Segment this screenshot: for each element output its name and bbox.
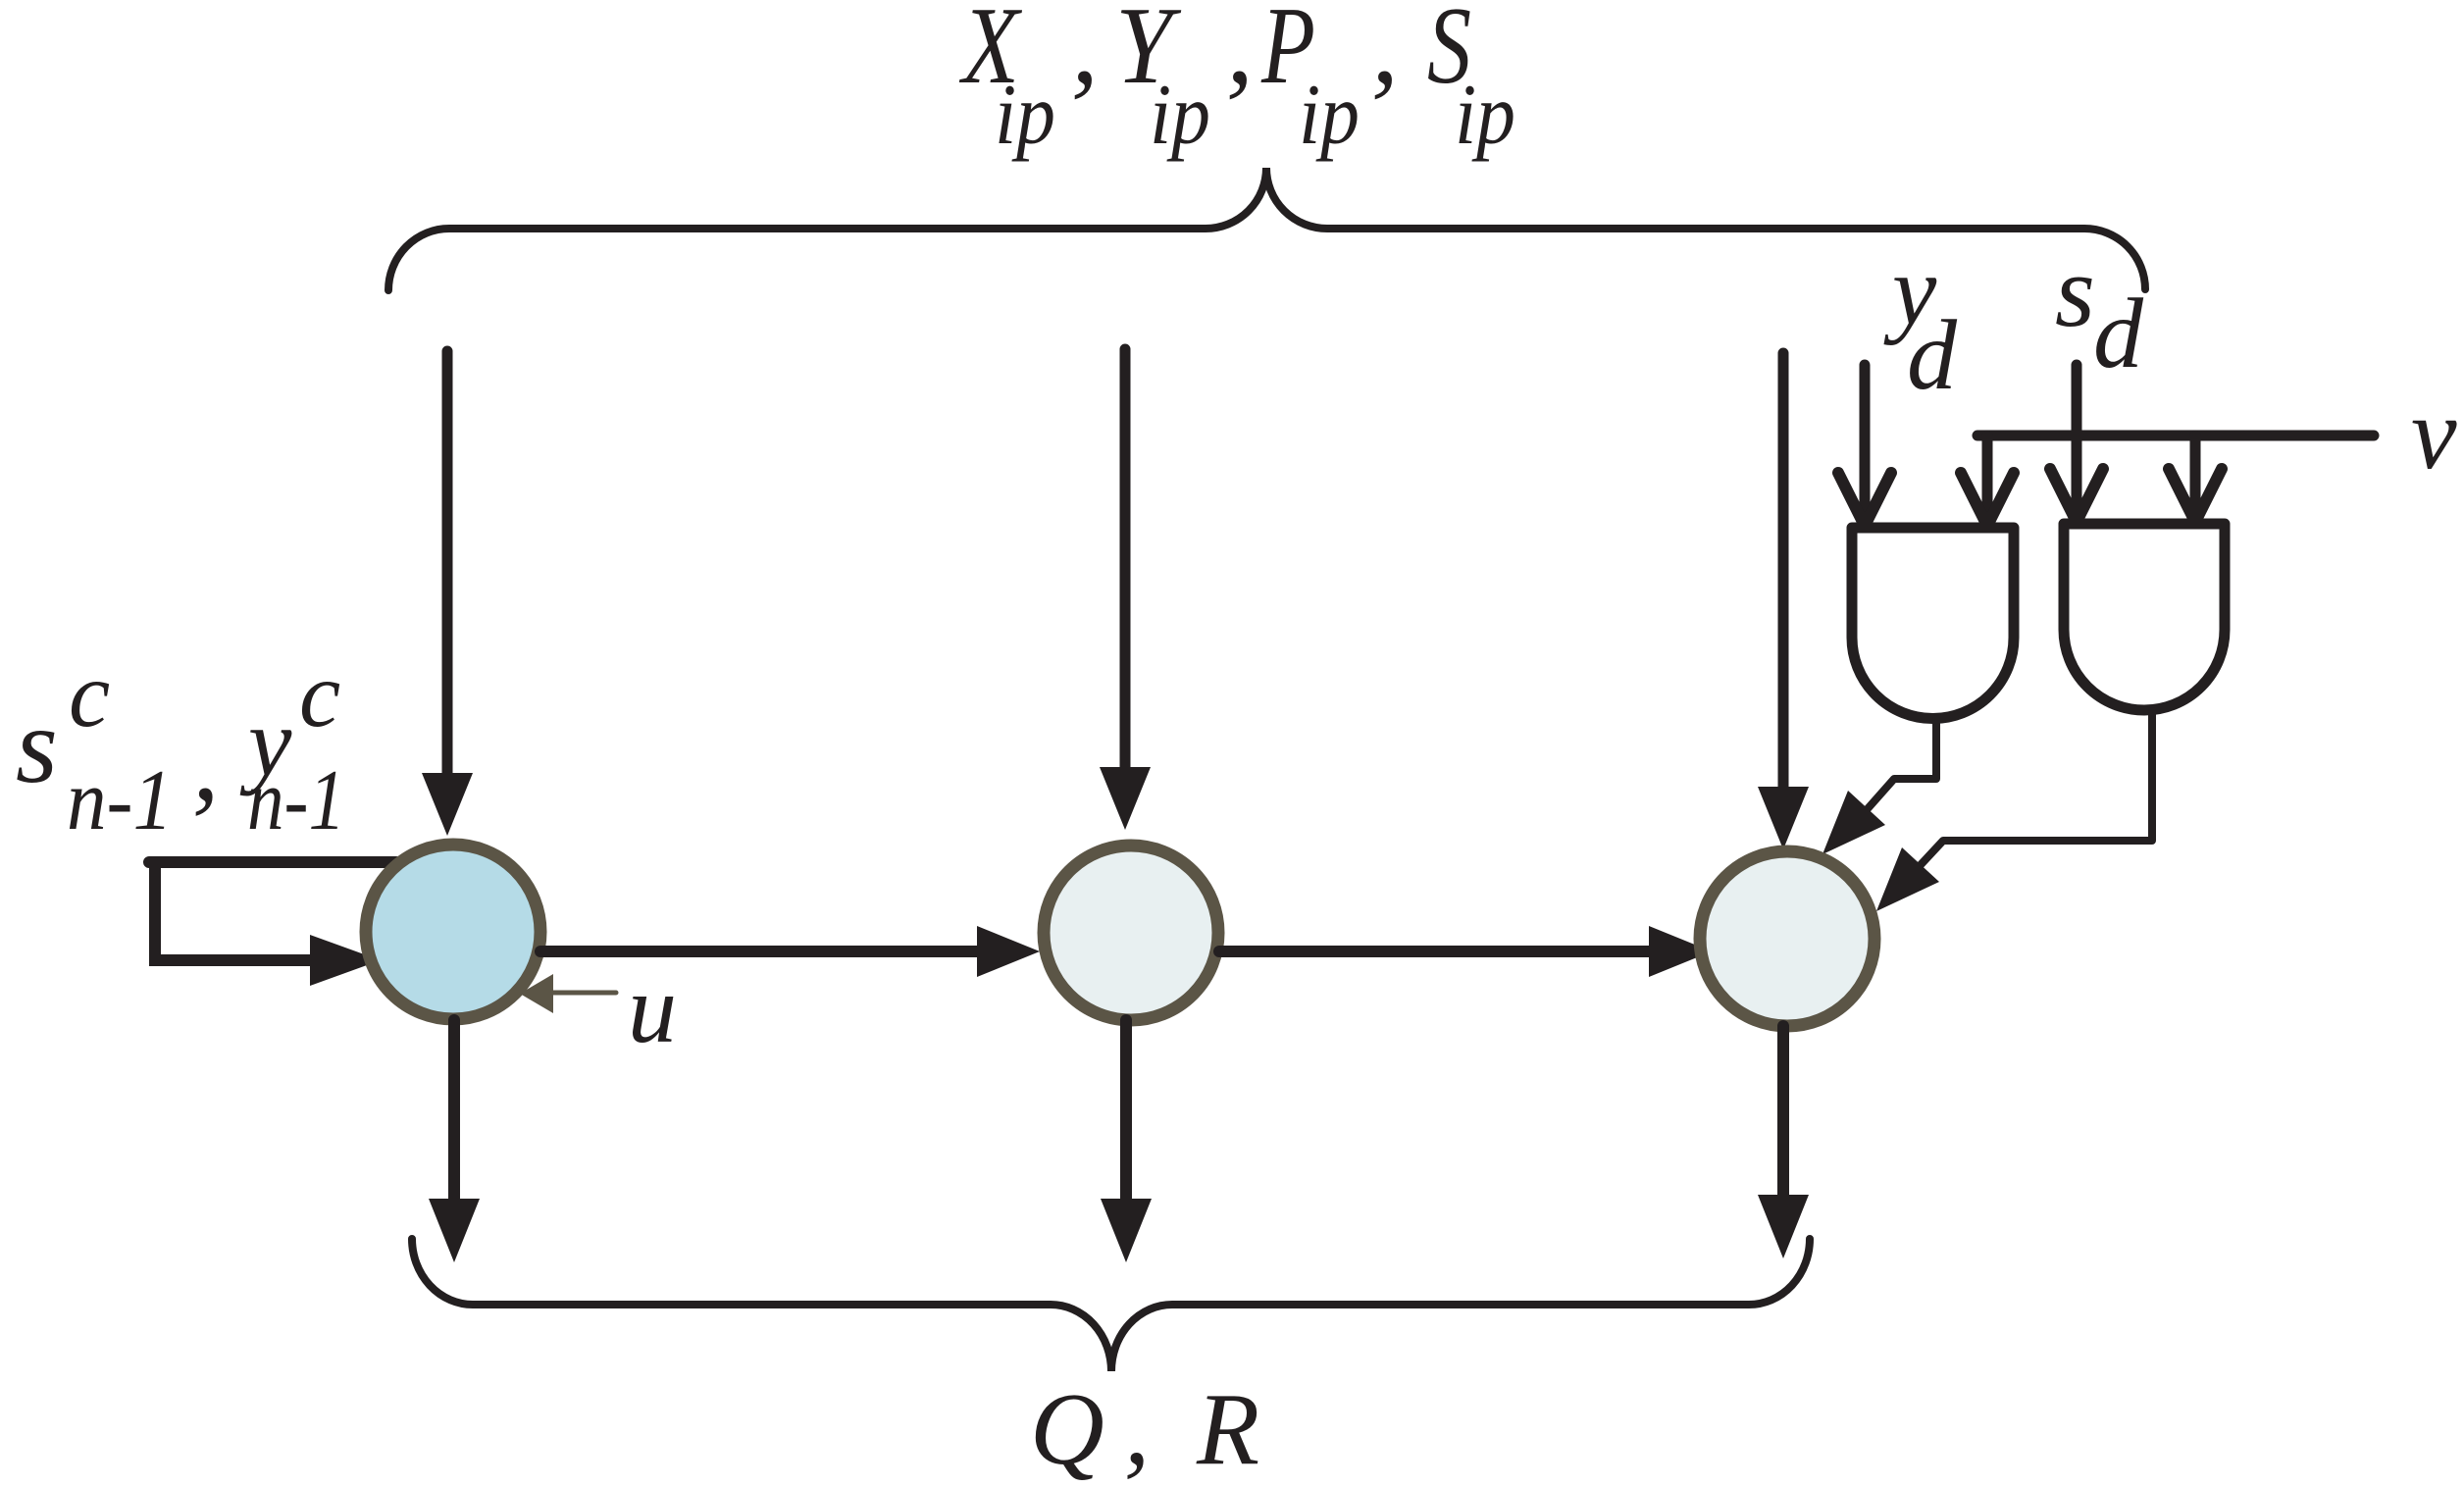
svg-text:d: d [1907, 300, 1958, 411]
svg-text:,: , [1124, 1371, 1150, 1486]
wire: input arrow 3 (into circle 3) [1758, 353, 1809, 849]
svg-text:ip: ip [995, 68, 1055, 163]
AND gate G2 [2064, 524, 2225, 710]
feedback wire into circle 1 [149, 862, 396, 986]
node circle 2 [1044, 846, 1218, 1020]
svg-text:s: s [16, 686, 58, 805]
svg-text:,: , [192, 703, 220, 823]
output wire 2 [1101, 1020, 1152, 1262]
output wire 1 [429, 1020, 480, 1262]
u arrow (olive) [520, 974, 616, 1013]
svg-text:ip: ip [1455, 68, 1515, 163]
node circle 3 [1700, 851, 1874, 1026]
svg-text:u: u [628, 954, 677, 1063]
svg-text:ip: ip [1299, 68, 1360, 163]
top label X_ip , Y_ip , P_ip , S_ip [959, 0, 1515, 163]
wire circle2 to circle3 [1219, 926, 1712, 977]
svg-text:R: R [1196, 1371, 1259, 1486]
wire: input arrow 2 (into circle 2) [1100, 349, 1151, 830]
label y_d [1883, 235, 1958, 411]
svg-text:c: c [69, 642, 110, 746]
svg-text:Q: Q [1030, 1371, 1104, 1486]
AND gate G1 [1852, 528, 2014, 719]
wire y_d input into gate G1 [1838, 365, 1891, 526]
svg-text:n-1: n-1 [67, 753, 173, 848]
svg-text:,: , [1226, 0, 1254, 107]
wire G2 output to circle 3 [1876, 711, 2152, 911]
svg-text:c: c [299, 642, 340, 746]
svg-text:ip: ip [1150, 68, 1210, 163]
label s^c_n-1 , y^c_n-1 [16, 642, 345, 848]
top brace (opening downward) [388, 168, 2145, 290]
bottom brace (opening upward) [412, 1239, 1810, 1371]
svg-text:s: s [2055, 233, 2095, 348]
wire s_d input into gate G2 [2050, 365, 2103, 522]
svg-text:,: , [1071, 0, 1099, 107]
svg-text:n-1: n-1 [247, 753, 345, 848]
wire circle1 to circle2 [540, 926, 1040, 977]
wire: input arrow 1 (into circle 1) [422, 351, 473, 836]
label s_d [2055, 233, 2144, 389]
node circle 1 [366, 845, 540, 1019]
wire v with two branches [1961, 436, 2374, 526]
wire G1 output to circle 3 [1822, 719, 1936, 854]
svg-text:d: d [2093, 279, 2144, 389]
output wire 3 [1758, 1026, 1809, 1258]
svg-text:v: v [2411, 376, 2457, 490]
svg-text:,: , [1371, 0, 1399, 107]
